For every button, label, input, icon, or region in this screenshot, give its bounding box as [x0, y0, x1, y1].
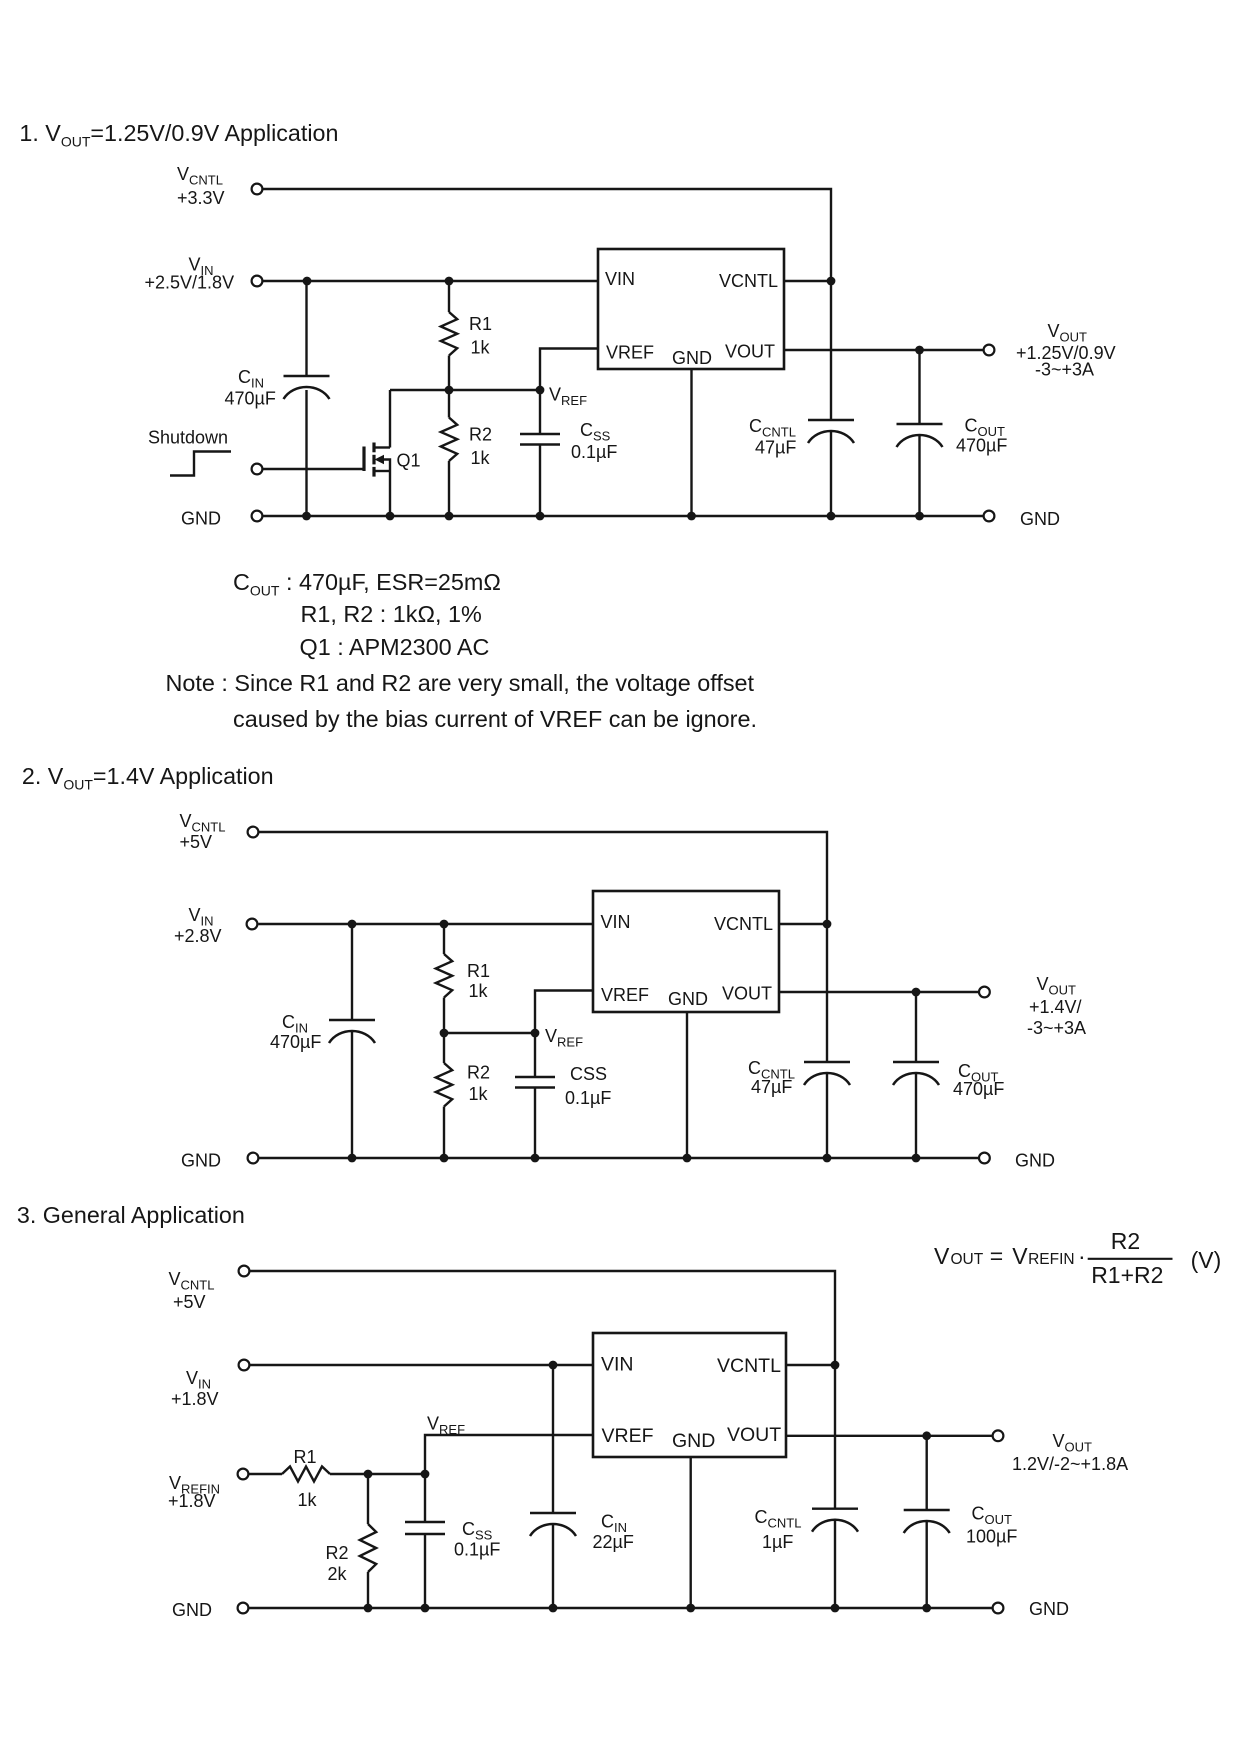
- svg-text:0.1µF: 0.1µF: [454, 1540, 500, 1560]
- svg-text:Note : Since R1 and R2 are ver: Note : Since R1 and R2 are very small, t…: [166, 670, 755, 696]
- svg-text:100µF: 100µF: [966, 1527, 1017, 1547]
- svg-text:GND: GND: [181, 509, 221, 529]
- svg-text:VCNTL: VCNTL: [717, 1355, 781, 1377]
- svg-text:47µF: 47µF: [751, 1077, 792, 1097]
- svg-text:+5V: +5V: [180, 832, 213, 852]
- svg-text:R1: R1: [294, 1447, 317, 1467]
- svg-text:R1, R2 : 1kΩ, 1%: R1, R2 : 1kΩ, 1%: [301, 601, 482, 627]
- svg-text:Shutdown: Shutdown: [148, 427, 228, 447]
- svg-text:GND: GND: [1029, 1599, 1069, 1619]
- svg-text:R2: R2: [469, 425, 492, 445]
- svg-text:+1.8V: +1.8V: [168, 1491, 216, 1511]
- svg-text:OUT: OUT: [951, 1251, 984, 1268]
- svg-text:GND: GND: [668, 989, 708, 1009]
- svg-text:0.1µF: 0.1µF: [565, 1088, 611, 1108]
- svg-text:1k: 1k: [469, 1084, 489, 1104]
- svg-text:Q1 : APM2300 AC: Q1 : APM2300 AC: [300, 634, 490, 660]
- svg-text:VOUT: VOUT: [725, 342, 775, 362]
- svg-text:V: V: [934, 1243, 950, 1269]
- svg-text:+2.8V: +2.8V: [174, 926, 222, 946]
- svg-text:GND: GND: [181, 1151, 221, 1171]
- svg-text:47µF: 47µF: [755, 438, 796, 458]
- svg-text:470µF: 470µF: [953, 1079, 1004, 1099]
- svg-text:GND: GND: [1020, 509, 1060, 529]
- svg-text:(V): (V): [1191, 1247, 1222, 1273]
- svg-text:+1.4V/: +1.4V/: [1029, 997, 1082, 1017]
- svg-text:VIN: VIN: [601, 912, 631, 932]
- svg-text:GND: GND: [1015, 1151, 1055, 1171]
- svg-text:1.2V/-2~+1.8A: 1.2V/-2~+1.8A: [1012, 1454, 1128, 1474]
- svg-text:-3~+3A: -3~+3A: [1027, 1018, 1086, 1038]
- svg-text:470µF: 470µF: [270, 1032, 321, 1052]
- svg-text:1k: 1k: [471, 448, 491, 468]
- svg-text:REFIN: REFIN: [1028, 1251, 1075, 1268]
- svg-text:VREF: VREF: [602, 1425, 654, 1447]
- svg-text:2. VOUT=1.4V Application: 2. VOUT=1.4V Application: [22, 763, 274, 793]
- svg-text:3. General Application: 3. General Application: [17, 1202, 245, 1228]
- svg-text:caused by the bias current of: caused by the bias current of VREF can b…: [233, 706, 757, 732]
- svg-text:R2: R2: [467, 1063, 490, 1083]
- svg-text:V: V: [1012, 1243, 1028, 1269]
- svg-text:470µF: 470µF: [956, 436, 1007, 456]
- svg-text:R1: R1: [467, 961, 490, 981]
- svg-text:VOUT: VOUT: [727, 1424, 781, 1446]
- svg-text:Q1: Q1: [397, 451, 421, 471]
- svg-text:R2: R2: [1111, 1228, 1140, 1254]
- svg-text:R1+R2: R1+R2: [1091, 1262, 1163, 1288]
- svg-text:VOUT: VOUT: [722, 984, 772, 1004]
- svg-text:VCNTL: VCNTL: [714, 914, 773, 934]
- svg-text:R1: R1: [469, 314, 492, 334]
- svg-text:VREF: VREF: [606, 343, 654, 363]
- svg-text:+2.5V/1.8V: +2.5V/1.8V: [145, 273, 235, 293]
- svg-text:R2: R2: [326, 1543, 349, 1563]
- svg-text:1k: 1k: [298, 1490, 318, 1510]
- svg-text:470µF: 470µF: [225, 389, 276, 409]
- svg-text:22µF: 22µF: [593, 1532, 634, 1552]
- svg-text:1k: 1k: [469, 981, 489, 1001]
- svg-text:VCNTL: VCNTL: [719, 271, 778, 291]
- svg-text:0.1µF: 0.1µF: [571, 442, 617, 462]
- svg-text:GND: GND: [172, 1600, 212, 1620]
- svg-text:+1.8V: +1.8V: [171, 1389, 219, 1409]
- svg-text:VIN: VIN: [601, 1354, 634, 1376]
- svg-text:+3.3V: +3.3V: [177, 188, 225, 208]
- svg-text:CSS: CSS: [570, 1064, 607, 1084]
- svg-text:·: ·: [1078, 1243, 1086, 1269]
- svg-text:VREF: VREF: [601, 985, 649, 1005]
- svg-text:+5V: +5V: [173, 1292, 206, 1312]
- svg-text:GND: GND: [672, 348, 712, 368]
- svg-text:-3~+3A: -3~+3A: [1035, 360, 1094, 380]
- svg-text:2k: 2k: [328, 1564, 348, 1584]
- svg-text:1k: 1k: [471, 338, 491, 358]
- svg-text:=: =: [990, 1243, 1003, 1269]
- svg-text:1µF: 1µF: [762, 1532, 793, 1552]
- svg-text:VIN: VIN: [605, 269, 635, 289]
- svg-text:GND: GND: [672, 1430, 715, 1452]
